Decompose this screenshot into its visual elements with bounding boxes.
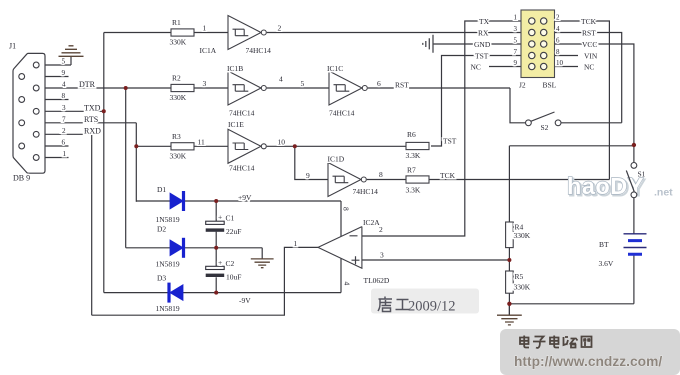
svg-text:D1: D1 xyxy=(157,185,166,194)
svg-text:10uF: 10uF xyxy=(226,273,241,282)
svg-text:4: 4 xyxy=(62,81,66,89)
svg-text:NC: NC xyxy=(584,63,594,72)
svg-text:-9V: -9V xyxy=(239,296,251,305)
svg-text:C2: C2 xyxy=(226,259,235,268)
svg-text:2: 2 xyxy=(62,127,66,135)
svg-text:5: 5 xyxy=(62,58,66,66)
svg-text:C1: C1 xyxy=(226,214,235,223)
svg-text:9: 9 xyxy=(514,59,518,67)
svg-text:8: 8 xyxy=(62,92,66,100)
svg-text:11: 11 xyxy=(198,138,205,147)
svg-text:7: 7 xyxy=(62,115,66,123)
svg-text:2: 2 xyxy=(278,24,282,33)
svg-text:TX: TX xyxy=(479,17,490,26)
svg-text:330K: 330K xyxy=(170,38,187,47)
svg-text:+: + xyxy=(218,213,222,222)
svg-text:IC1D: IC1D xyxy=(328,155,345,164)
svg-text:10: 10 xyxy=(278,138,286,147)
svg-text:TXD: TXD xyxy=(84,103,101,112)
svg-text:74HC14: 74HC14 xyxy=(329,108,355,117)
svg-text:330K: 330K xyxy=(170,93,187,102)
svg-text:DTR: DTR xyxy=(79,80,96,89)
svg-text:+9V: +9V xyxy=(238,193,252,202)
svg-text:RST: RST xyxy=(582,29,596,38)
svg-text:4: 4 xyxy=(279,75,283,84)
svg-text:1: 1 xyxy=(294,239,298,248)
svg-text:D3: D3 xyxy=(157,274,166,283)
svg-text:IC1B: IC1B xyxy=(227,64,243,73)
svg-text:3.6V: 3.6V xyxy=(599,259,614,268)
svg-text:R1: R1 xyxy=(172,18,181,27)
svg-text:74HC14: 74HC14 xyxy=(353,187,379,196)
svg-text:R3: R3 xyxy=(172,132,181,141)
svg-text:8: 8 xyxy=(342,207,351,211)
svg-text:74HC14: 74HC14 xyxy=(229,164,255,173)
svg-text:8: 8 xyxy=(556,48,560,56)
svg-text:J2: J2 xyxy=(519,81,526,90)
svg-text:RST: RST xyxy=(395,80,409,89)
svg-text:330K: 330K xyxy=(514,231,531,240)
svg-text:8: 8 xyxy=(379,170,383,179)
svg-text:S2: S2 xyxy=(541,123,549,132)
svg-text:4: 4 xyxy=(343,282,352,286)
svg-text:VIN: VIN xyxy=(584,52,598,61)
svg-text:6: 6 xyxy=(556,37,560,45)
svg-text:IC1C: IC1C xyxy=(327,64,343,73)
svg-text:3: 3 xyxy=(203,79,207,88)
svg-text:2009/12: 2009/12 xyxy=(408,299,456,315)
svg-text:DB 9: DB 9 xyxy=(13,174,30,183)
svg-text:TST: TST xyxy=(475,52,489,61)
svg-text:9: 9 xyxy=(306,171,310,180)
svg-text:6: 6 xyxy=(377,79,381,88)
svg-text:2: 2 xyxy=(556,14,560,22)
svg-text:RTS: RTS xyxy=(84,115,98,124)
svg-text:3.3K: 3.3K xyxy=(406,151,421,160)
svg-text:10: 10 xyxy=(556,59,564,67)
svg-text:74HC14: 74HC14 xyxy=(246,46,272,55)
svg-text:GND: GND xyxy=(474,40,491,49)
svg-text:TL062D: TL062D xyxy=(364,276,390,285)
svg-text:RX: RX xyxy=(478,29,489,38)
svg-text:TCK: TCK xyxy=(581,17,597,26)
svg-text:+: + xyxy=(218,258,222,267)
svg-text:3.3K: 3.3K xyxy=(406,185,421,194)
svg-text:330K: 330K xyxy=(170,152,187,161)
svg-text:3: 3 xyxy=(380,251,384,260)
svg-text:D2: D2 xyxy=(157,224,166,233)
svg-text:TCK: TCK xyxy=(440,171,456,180)
svg-text:2: 2 xyxy=(379,225,383,234)
svg-text:5: 5 xyxy=(514,37,518,45)
svg-text:TST: TST xyxy=(443,136,457,145)
svg-text:9: 9 xyxy=(62,69,66,77)
svg-text:22uF: 22uF xyxy=(226,227,241,236)
svg-text:1: 1 xyxy=(63,150,67,158)
svg-text:1: 1 xyxy=(514,14,518,22)
svg-text:1N5819: 1N5819 xyxy=(156,304,180,313)
svg-text:.net: .net xyxy=(654,187,673,199)
svg-text:J1: J1 xyxy=(9,42,16,51)
svg-text:IC1A: IC1A xyxy=(200,46,217,55)
svg-text:R5: R5 xyxy=(515,272,524,281)
svg-text:3: 3 xyxy=(62,104,66,112)
svg-text:VCC: VCC xyxy=(582,40,597,49)
svg-text:4: 4 xyxy=(556,25,560,33)
svg-text:1N5819: 1N5819 xyxy=(156,260,180,269)
svg-text:BSL: BSL xyxy=(543,81,557,90)
svg-text:74HC14: 74HC14 xyxy=(229,108,255,117)
svg-text:1N5819: 1N5819 xyxy=(156,215,180,224)
svg-text:IC2A: IC2A xyxy=(363,218,380,227)
svg-text:R7: R7 xyxy=(407,166,416,175)
svg-text:IC1E: IC1E xyxy=(228,120,244,129)
svg-text:6: 6 xyxy=(62,139,66,147)
svg-text:BT: BT xyxy=(599,240,609,249)
svg-text:R2: R2 xyxy=(172,74,181,83)
svg-text:7: 7 xyxy=(514,48,518,56)
svg-text:1: 1 xyxy=(203,24,207,33)
svg-text:http://www.cndzz.com/: http://www.cndzz.com/ xyxy=(514,354,662,369)
svg-text:330K: 330K xyxy=(514,282,531,291)
svg-text:R6: R6 xyxy=(407,130,416,139)
svg-text:5: 5 xyxy=(301,79,305,88)
svg-text:3: 3 xyxy=(514,25,518,33)
svg-text:NC: NC xyxy=(471,63,481,72)
svg-text:RXD: RXD xyxy=(84,126,101,135)
